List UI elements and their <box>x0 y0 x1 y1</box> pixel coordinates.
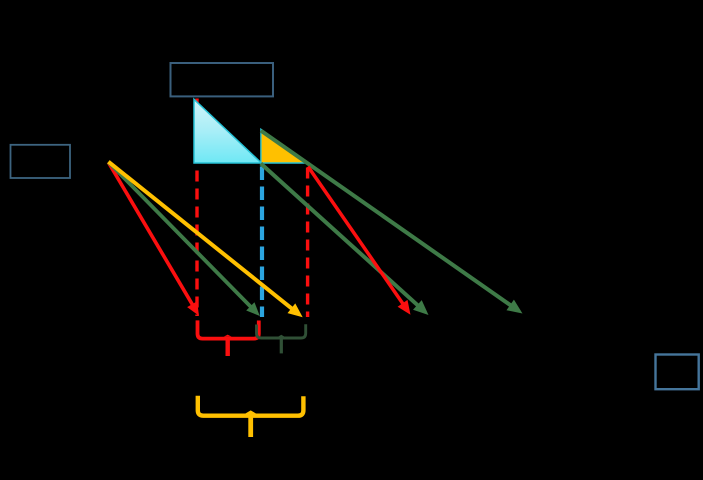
red arrow from orange bottom-right corner <box>308 167 411 315</box>
red arrow from left origin <box>108 162 199 315</box>
green bracket under orange span <box>257 324 306 353</box>
red bracket under cyan span <box>198 320 259 356</box>
left label box <box>11 145 71 178</box>
green arrow from left origin <box>108 162 259 316</box>
dashed red timeline line left <box>195 99 198 317</box>
orange triangle <box>261 129 307 163</box>
green arrow from orange apex (long, shallow) <box>261 131 523 314</box>
yellow arrow from left origin <box>108 162 302 318</box>
right label box <box>656 355 699 390</box>
cyan triangle <box>194 99 261 163</box>
dashed red timeline line right <box>306 168 309 318</box>
dashed blue timeline line center <box>260 167 264 318</box>
green arrow from triangle junction <box>261 164 429 316</box>
yellow bracket (overall span) <box>198 396 304 437</box>
top label box <box>171 63 274 96</box>
